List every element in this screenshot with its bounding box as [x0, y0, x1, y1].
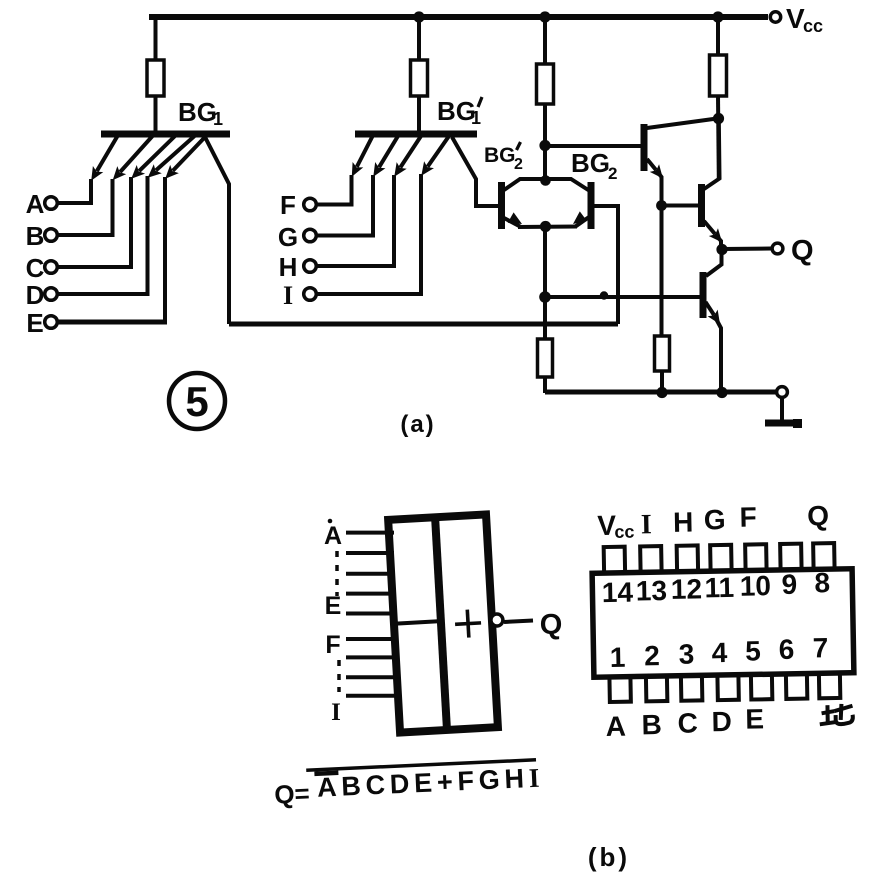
svg-text:A: A: [26, 189, 45, 219]
svg-text:BG: BG: [571, 148, 610, 178]
svg-text:I: I: [331, 699, 341, 726]
svg-text:cc: cc: [803, 16, 823, 36]
svg-text:F: F: [325, 631, 340, 659]
svg-text:A: A: [324, 522, 342, 550]
svg-text:2: 2: [608, 164, 617, 183]
svg-text:E: E: [745, 703, 764, 734]
svg-text:2: 2: [644, 640, 660, 671]
svg-text:6: 6: [778, 634, 794, 665]
svg-text:5: 5: [185, 378, 208, 425]
svg-text:C: C: [26, 253, 45, 283]
svg-text:BG: BG: [178, 97, 217, 127]
svg-text:B: B: [641, 709, 662, 740]
svg-text:10: 10: [740, 570, 772, 602]
svg-text:Q=: Q=: [274, 778, 311, 810]
svg-text:B: B: [26, 221, 45, 251]
svg-text:(b): (b): [588, 842, 630, 872]
svg-text:H: H: [673, 507, 694, 538]
svg-text:D: D: [26, 280, 45, 310]
svg-text:Q: Q: [791, 235, 814, 267]
svg-text:1: 1: [610, 642, 626, 673]
svg-text:G: G: [278, 222, 298, 252]
svg-text:13: 13: [636, 575, 668, 607]
svg-text:(a): (a): [400, 411, 435, 438]
svg-text:1: 1: [213, 109, 223, 129]
svg-text:12: 12: [671, 573, 703, 605]
svg-text:14: 14: [602, 577, 634, 609]
svg-text:G: G: [704, 504, 726, 535]
svg-text:2: 2: [514, 156, 523, 173]
svg-text:7: 7: [812, 632, 828, 663]
svg-text:3: 3: [678, 639, 694, 670]
svg-text:Q: Q: [540, 609, 563, 641]
svg-text:I: I: [283, 281, 293, 310]
svg-text:cc: cc: [614, 522, 634, 542]
svg-text:I: I: [641, 509, 652, 540]
svg-text:H: H: [279, 252, 298, 282]
svg-text:9: 9: [781, 569, 797, 600]
svg-text:8: 8: [814, 567, 830, 598]
svg-text:F: F: [739, 501, 757, 532]
svg-text:E: E: [26, 308, 43, 338]
svg-text:BG: BG: [484, 144, 516, 167]
svg-text:E: E: [325, 592, 342, 620]
svg-text:4: 4: [711, 637, 728, 668]
svg-text:Q: Q: [807, 500, 829, 531]
svg-text:D: D: [711, 706, 732, 737]
svg-text:1: 1: [471, 108, 481, 128]
svg-text:F: F: [280, 190, 296, 220]
svg-text:5: 5: [745, 635, 761, 666]
svg-text:A: A: [605, 711, 626, 742]
svg-text:C: C: [677, 707, 698, 738]
svg-text:11: 11: [704, 572, 734, 604]
